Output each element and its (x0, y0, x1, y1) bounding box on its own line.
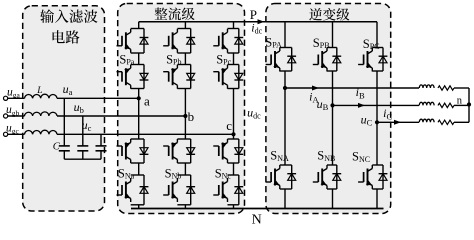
S_PA diode (291, 48, 293, 72)
S_Pb lower diode (190, 65, 192, 89)
S_Pc upper diode (238, 29, 240, 54)
wire (131, 52, 144, 54)
wire (280, 188, 292, 190)
wire b to rectifier (57, 115, 185, 117)
S_Na lower diode (143, 175, 145, 205)
node c (231, 132, 235, 136)
svg-text:a: a (144, 93, 150, 108)
S_Pc lower IGBT (reversed) (227, 85, 229, 89)
capacitor branch x=64.3 (63, 98, 65, 146)
S_Pb upper IGBT (176, 29, 178, 33)
S_Nb upper diode (190, 139, 192, 163)
title: 整流级 (155, 7, 195, 20)
wire (228, 204, 239, 206)
S_Pc lower diode (238, 65, 240, 89)
inverter switch S_PC (376, 22, 378, 48)
title: 逆变级 (309, 8, 349, 21)
rectifier switch S_Pc (bidirectional cell) (233, 22, 235, 29)
terminal u_ga (4, 96, 8, 100)
S_Na upper IGBT (reversed) (130, 160, 132, 164)
wire (372, 70, 383, 72)
wire a to rectifier (57, 97, 139, 99)
load inductor C (419, 119, 434, 122)
inverter stage box 逆变级 (266, 4, 391, 214)
wire (177, 204, 190, 206)
S_Nc upper IGBT (reversed) (227, 160, 229, 164)
S_Nb lower IGBT (176, 178, 178, 182)
node phase C (375, 120, 379, 124)
svg-text:c: c (226, 118, 232, 133)
S_Pb lower IGBT (reversed) (176, 85, 178, 89)
S_Nc upper diode (238, 139, 240, 163)
wire (280, 70, 292, 72)
wire (228, 162, 239, 164)
load inductor B (419, 102, 434, 105)
arrow i_A (312, 86, 319, 91)
load resistor C (438, 120, 454, 124)
P rail (DC+) (139, 21, 377, 23)
wire (131, 162, 144, 164)
wire phase b (8, 115, 25, 117)
rectifier switch S_Na (bidirectional cell) (138, 98, 140, 139)
wire c to rectifier (57, 133, 234, 135)
wire (177, 162, 190, 164)
terminal u_gc (4, 132, 8, 136)
S_PC diode (382, 48, 384, 72)
svg-text:b: b (188, 109, 195, 124)
rectifier switch S_Nb (bidirectional cell) (184, 116, 186, 139)
S_PB IGBT (326, 48, 328, 52)
inductor L (phase a) (25, 94, 58, 98)
wire (327, 70, 337, 72)
S_PB diode (336, 48, 338, 72)
wire (454, 121, 469, 123)
wire (372, 188, 383, 190)
S_Nb upper IGBT (reversed) (176, 160, 178, 164)
S_Pa lower IGBT (reversed) (130, 85, 132, 89)
capacitor branch x=101.0 (100, 134, 102, 146)
S_Na lower IGBT (130, 178, 132, 182)
node a (137, 96, 141, 100)
S_Pc upper IGBT (227, 29, 229, 33)
S_Pb upper diode (190, 29, 192, 54)
load resistor B (438, 103, 454, 107)
rectifier switch S_Nc (bidirectional cell) (233, 134, 235, 139)
wire (228, 52, 239, 54)
inverter switch S_NB (332, 105, 334, 165)
svg-text:n: n (457, 96, 463, 107)
terminal u_gb (4, 114, 8, 118)
rectifier stage box 整流级 (118, 4, 245, 214)
wire (177, 52, 190, 54)
svg-text:C: C (53, 142, 61, 153)
inverter switch S_NA (284, 88, 286, 165)
load inductor A (419, 85, 434, 88)
wire (327, 188, 337, 190)
node b (183, 114, 187, 118)
svg-text:L: L (36, 86, 42, 96)
rectifier switch S_Pa (bidirectional cell) (138, 22, 140, 29)
input filter box 输入滤波电路 (23, 6, 105, 211)
wire phase c (8, 133, 25, 135)
inductor (phase b) (25, 112, 58, 116)
S_NA IGBT (279, 165, 281, 169)
inductor (phase c) (25, 130, 58, 134)
S_NB IGBT (326, 165, 328, 169)
S_PC IGBT (371, 48, 373, 52)
S_NC IGBT (371, 165, 373, 169)
wire (177, 88, 190, 90)
output line C (377, 121, 419, 123)
S_Nc lower IGBT (227, 178, 229, 182)
node phase A (283, 86, 287, 90)
node phase B (330, 103, 334, 107)
P rail arrow i_dc (258, 19, 265, 24)
N rail (DC-) (131, 208, 384, 210)
arrow i_C (394, 120, 401, 125)
S_Na upper diode (143, 139, 145, 163)
load resistor A (438, 86, 454, 90)
wire (454, 87, 469, 89)
inverter switch S_PA (284, 22, 286, 48)
S_NA diode (291, 165, 293, 189)
S_Nb lower diode (190, 175, 192, 205)
output line A (285, 87, 419, 89)
load star point vertical (468, 88, 470, 122)
wire (454, 104, 469, 106)
wire phase a (8, 97, 25, 99)
S_Pa upper IGBT (130, 29, 132, 33)
S_PA IGBT (279, 48, 281, 52)
capacitor common bar (64, 158, 101, 160)
wire (228, 88, 239, 90)
output line B (333, 104, 420, 106)
capacitor branch x=82.8 (82, 116, 84, 146)
S_Pa lower diode (143, 65, 145, 89)
S_Pa upper diode (143, 29, 145, 54)
node n (467, 102, 471, 106)
inverter switch S_PB (332, 22, 334, 48)
svg-text:N: N (252, 212, 262, 224)
title: 输入滤波 电路 (40, 9, 97, 23)
wire (131, 88, 144, 90)
wire (131, 204, 144, 206)
arrow i_B (358, 103, 365, 108)
rectifier switch S_Pb (bidirectional cell) (184, 22, 186, 29)
S_Nc lower diode (238, 175, 240, 205)
inverter switch S_NC (376, 122, 378, 165)
S_NB diode (336, 165, 338, 189)
S_NC diode (382, 165, 384, 189)
